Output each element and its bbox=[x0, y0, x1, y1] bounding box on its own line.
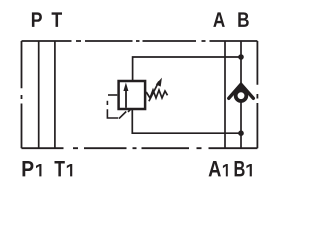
pilot line (dashed) bbox=[108, 94, 117, 96]
relief valve flow arrow bbox=[125, 90, 127, 108]
check valve C1 seat bbox=[229, 84, 254, 98]
check valve C1 ball bbox=[236, 90, 247, 101]
port label T1 bbox=[54, 161, 64, 176]
plate enclosure left edge (chain line) bbox=[21, 41, 23, 148]
node junction top (B line) bbox=[238, 54, 244, 60]
relief valve V1 body bbox=[119, 81, 146, 109]
wire T line through bbox=[54, 41, 56, 148]
plate enclosure right edge (chain line) bbox=[256, 41, 258, 148]
port label A1 bbox=[209, 161, 221, 176]
port label P bbox=[32, 12, 42, 27]
wire relief valve top riser bbox=[133, 57, 241, 80]
port label B1 bbox=[235, 161, 245, 176]
wire P line through bbox=[38, 41, 40, 148]
port label B bbox=[238, 12, 248, 27]
relief valve spring (adjustable) bbox=[146, 90, 167, 98]
wire relief valve bottom riser bbox=[132, 110, 241, 134]
spring adjustment arrow bbox=[149, 82, 159, 102]
port label A bbox=[213, 12, 225, 27]
wire B line through bbox=[240, 41, 242, 148]
plate enclosure top edge (chain line) bbox=[22, 40, 258, 42]
plate enclosure bottom edge (chain line) bbox=[22, 147, 258, 149]
node junction bottom (B line) bbox=[238, 130, 244, 136]
port label T bbox=[52, 12, 62, 27]
wire A line through bbox=[224, 41, 226, 148]
port label P1 bbox=[22, 161, 33, 176]
